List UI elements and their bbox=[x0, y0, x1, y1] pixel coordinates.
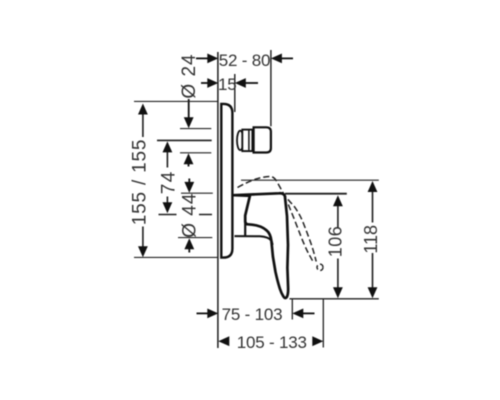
arrow Ø24 bottom up bbox=[184, 153, 194, 166]
extension line plate bottom bbox=[134, 256, 218, 258]
handle flange line bbox=[235, 236, 273, 245]
escutcheon plate bbox=[221, 104, 232, 258]
dimension 155/155 top arrow bbox=[138, 104, 148, 115]
dimension Ø44 bottom arrow bbox=[184, 238, 194, 252]
dimension 74 line bbox=[166, 150, 168, 168]
svg-text:74: 74 bbox=[158, 170, 179, 194]
extension line 15mm front face bbox=[234, 74, 236, 112]
extension line handle bottom bbox=[290, 298, 379, 300]
stem knob bbox=[254, 127, 271, 152]
dimension 52-80 right arrow bbox=[271, 54, 293, 64]
svg-text:105 - 133: 105 - 133 bbox=[237, 333, 307, 352]
dimension 105-133 right arrow bbox=[312, 336, 323, 346]
hub bottom tangent line bbox=[178, 237, 212, 239]
svg-text:118: 118 bbox=[361, 225, 381, 254]
dimension 118 top arrow bbox=[368, 181, 378, 192]
dimension 74 bottom arrow bbox=[163, 202, 173, 213]
dashed handle raised inner curve bbox=[288, 205, 313, 263]
dimension 106 bottom arrow bbox=[333, 287, 343, 298]
dimension 74 top arrow bbox=[163, 141, 173, 152]
svg-text:155 / 155: 155 / 155 bbox=[130, 139, 151, 225]
handle body bbox=[234, 193, 288, 298]
dimension 155/155 line bbox=[142, 112, 144, 137]
extension line handle grip bbox=[291, 299, 293, 320]
dashed handle tip hook bbox=[317, 264, 323, 270]
leader arrow Ø24 down bbox=[184, 99, 194, 128]
dimension 106 line bbox=[337, 203, 339, 228]
handle hub left edge lower bbox=[244, 216, 246, 237]
hub top tangent line bbox=[181, 192, 213, 194]
dimension 106 top arrow bbox=[333, 195, 343, 206]
stem bottom tangent line bbox=[180, 152, 211, 154]
dimension 118 line bbox=[372, 189, 374, 223]
svg-text:Ø 24: Ø 24 bbox=[179, 53, 200, 98]
dimension 155/155 bottom arrow bbox=[138, 246, 148, 257]
dimension 52-80 left arrow bbox=[196, 54, 218, 64]
stem sleeve ellipse bbox=[237, 131, 243, 150]
svg-text:Ø 44: Ø 44 bbox=[180, 193, 201, 238]
stem center line bbox=[157, 139, 212, 141]
svg-text:75 - 103: 75 - 103 bbox=[222, 305, 283, 324]
wall line bbox=[217, 52, 219, 348]
svg-text:106: 106 bbox=[325, 226, 345, 258]
stem cylinder bbox=[242, 130, 252, 152]
stem top tangent line bbox=[180, 128, 211, 130]
dimension 118 bottom arrow bbox=[368, 287, 378, 298]
extension line raised handle top bbox=[241, 179, 379, 181]
extension line handle reach bbox=[322, 299, 324, 348]
lever top extension line bbox=[285, 193, 347, 195]
extension line plate top bbox=[134, 100, 218, 102]
dimension Ø44 top arrow bbox=[184, 179, 194, 193]
dimension 105-133 left arrow bbox=[218, 336, 229, 346]
hub center line bbox=[159, 214, 177, 216]
stem cylinder ring line bbox=[248, 131, 250, 151]
dimension 75-103 right arrow bbox=[292, 309, 314, 319]
dimension 75-103 left arrow bbox=[197, 309, 219, 319]
dashed handle raised outer curve bbox=[238, 176, 317, 261]
dimension 15 right arrow bbox=[235, 78, 258, 88]
extension line stem tip bbox=[270, 50, 272, 126]
dimension 15 left arrow bbox=[201, 78, 218, 88]
svg-text:52 - 80: 52 - 80 bbox=[219, 51, 271, 70]
svg-text:15: 15 bbox=[218, 75, 237, 94]
